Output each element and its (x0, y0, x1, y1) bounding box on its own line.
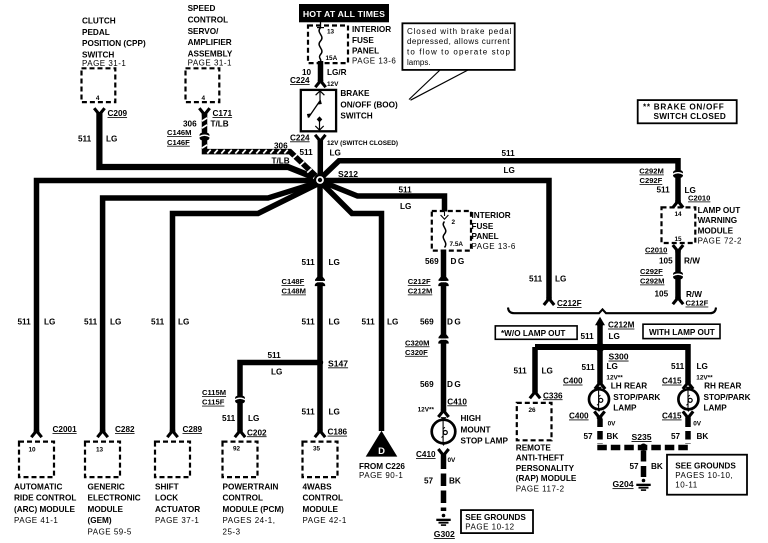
svg-text:4: 4 (202, 95, 206, 102)
svg-text:15: 15 (675, 236, 683, 243)
connector C209 (94, 108, 104, 113)
BOO switch internal symbol (316, 91, 325, 95)
svg-text:LG: LG (106, 134, 117, 143)
svg-text:SHIFT: SHIFT (155, 482, 179, 491)
wire fuse output 569 DG down to high mount stop lamp C410 (441, 250, 447, 411)
svg-text:511: 511 (514, 366, 528, 375)
dashed ground wire 57 BK from S235 to G204 (641, 451, 647, 478)
svg-text:LAMP: LAMP (613, 404, 637, 413)
connector C148F / C148M (314, 281, 325, 282)
wire C212M below brace down to splice S300, circuit 511 LG (597, 324, 603, 348)
wire S300 to RH rear stop/park lamp C415, circuit 511 LG (685, 344, 691, 383)
wire from ARC module C2001 to splice S212, circuit 511 LG (37, 181, 317, 434)
svg-text:511: 511 (151, 318, 165, 327)
svg-text:S235: S235 (632, 432, 652, 442)
svg-text:MODULE: MODULE (698, 226, 734, 235)
svg-text:D: D (378, 446, 385, 457)
splice S300 (595, 343, 604, 352)
shift lock actuator box (dashed) (155, 442, 190, 478)
svg-text:511: 511 (268, 351, 282, 360)
svg-text:STOP/PARK: STOP/PARK (613, 393, 660, 402)
RAP module box (dashed), pin 26 (517, 403, 552, 440)
svg-text:C336: C336 (543, 391, 563, 400)
wire from shift lock actuator C289 to splice S212, circuit 511 LG (173, 184, 318, 433)
svg-text:LG: LG (504, 166, 515, 175)
svg-text:(ARC) MODULE: (ARC) MODULE (14, 505, 75, 514)
svg-text:LAMP OUT: LAMP OUT (698, 206, 741, 215)
svg-text:CONTROL: CONTROL (223, 494, 263, 503)
lamp out warning module box (dashed), pins 14 and 15 (662, 207, 696, 243)
svg-text:SERVO/: SERVO/ (188, 27, 220, 36)
speed control box (dashed) (186, 68, 220, 102)
svg-text:26: 26 (529, 407, 537, 414)
wire C2010 lamp-out module output to C212F above brace, circuit 105 R/W (675, 250, 681, 299)
svg-text:MOUNT: MOUNT (461, 425, 491, 434)
svg-text:12V**: 12V** (606, 374, 623, 381)
svg-text:HIGH: HIGH (461, 414, 482, 423)
dashed ground wire 57 BK from high mount lamp to G302 (441, 457, 447, 512)
svg-text:C415: C415 (662, 377, 682, 386)
wire S300 horizontal bus between C336 branch and RH lamp branch (535, 344, 688, 350)
wire splice S212 to C292M connector, circuit 511 LG (top right run) (322, 161, 679, 203)
svg-text:WARNING: WARNING (698, 216, 738, 225)
svg-text:C212M: C212M (408, 287, 432, 296)
svg-text:FROM C226: FROM C226 (359, 462, 405, 471)
svg-text:PAGE 117-2: PAGE 117-2 (516, 485, 565, 494)
PCM module box (dashed), pin 92 (223, 442, 258, 478)
svg-text:HOT AT ALL TIMES: HOT AT ALL TIMES (303, 9, 385, 19)
svg-text:569: 569 (420, 318, 434, 327)
svg-text:C186: C186 (328, 428, 348, 437)
svg-text:C209: C209 (108, 109, 128, 118)
svg-text:C292M: C292M (639, 167, 663, 176)
wire splice S212 east to left C212F drop, circuit 511 LG (322, 181, 549, 299)
svg-text:511: 511 (300, 148, 314, 157)
svg-text:LG/R: LG/R (327, 68, 347, 77)
svg-text:STOP LAMP: STOP LAMP (461, 437, 509, 446)
svg-text:C415: C415 (662, 412, 682, 421)
svg-text:REMOTE: REMOTE (516, 443, 552, 452)
svg-text:C289: C289 (183, 425, 203, 434)
svg-text:C2010: C2010 (688, 194, 710, 203)
svg-text:POWERTRAIN: POWERTRAIN (223, 482, 279, 491)
svg-text:SWITCH: SWITCH (340, 111, 372, 120)
svg-text:FUSE: FUSE (352, 36, 374, 45)
svg-text:*W/O LAMP OUT: *W/O LAMP OUT (501, 329, 565, 338)
svg-text:DG: DG (447, 318, 462, 327)
svg-text:C148M: C148M (282, 287, 306, 296)
svg-text:LG: LG (542, 366, 553, 375)
svg-text:569: 569 (425, 257, 439, 266)
svg-text:(RAP) MODULE: (RAP) MODULE (516, 474, 577, 483)
wire S300 down to LH rear stop/park lamp C400, circuit 511 LG (597, 347, 603, 383)
connector C292F / C292M lower (673, 272, 683, 279)
GEM module box (dashed), pin 13 (85, 442, 120, 478)
wire S147 west branch to PCM C202 via C115, circuit 511 LG (240, 363, 318, 431)
ground G302 (442, 514, 446, 518)
svg-text:MODULE (PCM): MODULE (PCM) (223, 505, 285, 514)
svg-text:SEE GROUNDS: SEE GROUNDS (465, 513, 526, 522)
svg-text:57: 57 (630, 462, 640, 471)
svg-text:LOCK: LOCK (155, 494, 178, 503)
svg-text:LH REAR: LH REAR (611, 382, 647, 391)
svg-text:S300: S300 (609, 352, 629, 362)
svg-text:C202: C202 (247, 428, 267, 437)
svg-text:C2010: C2010 (645, 245, 667, 254)
svg-text:lamps.: lamps. (407, 58, 431, 67)
svg-text:12V**: 12V** (696, 374, 713, 381)
svg-text:511: 511 (529, 274, 543, 283)
wire splice S212 to triangle D (from C226), circuit 511 LG (322, 183, 382, 431)
ground G204 (642, 479, 646, 483)
svg-text:PAGE 41-1: PAGE 41-1 (14, 516, 58, 525)
svg-text:C292M: C292M (640, 277, 664, 286)
svg-text:511: 511 (502, 149, 516, 158)
svg-text:CONTROL: CONTROL (303, 494, 343, 503)
svg-text:BK: BK (607, 432, 619, 441)
svg-text:C292F: C292F (640, 267, 663, 276)
svg-text:LG: LG (607, 362, 618, 371)
svg-text:to flow to operate stop: to flow to operate stop (407, 48, 511, 57)
svg-text:STOP/PARK: STOP/PARK (704, 393, 751, 402)
connector C292M / C292F (673, 170, 683, 177)
svg-text:LG: LG (44, 318, 55, 327)
connector C115M / C115F (235, 396, 245, 403)
svg-text:INTERIOR: INTERIOR (472, 211, 511, 220)
svg-text:INTERIOR: INTERIOR (352, 25, 391, 34)
svg-text:PAGES 24-1,: PAGES 24-1, (223, 516, 276, 525)
svg-text:C400: C400 (563, 377, 583, 386)
svg-text:C115F: C115F (202, 398, 225, 407)
svg-text:LG: LG (329, 407, 340, 416)
svg-text:13: 13 (327, 29, 335, 36)
wire S300 to RAP module C336, circuit 511 LG (532, 347, 538, 392)
fuse element 13 (15A) (317, 27, 324, 29)
svg-text:CLUTCH: CLUTCH (82, 17, 116, 26)
svg-text:PAGE 72-2: PAGE 72-2 (698, 236, 742, 245)
svg-text:FUSE: FUSE (472, 222, 494, 231)
dashed ground wire 57 BK below LH lamp (597, 419, 603, 445)
svg-text:WITH LAMP OUT: WITH LAMP OUT (649, 328, 715, 337)
wire from brake switch C224 down to splice S212, circuit 511 LG (318, 140, 324, 177)
svg-text:ASSEMBLY: ASSEMBLY (188, 49, 233, 58)
svg-text:C320M: C320M (405, 338, 429, 347)
svg-text:PAGE 13-6: PAGE 13-6 (352, 57, 396, 66)
connector C171 (199, 108, 209, 113)
svg-text:7.5A: 7.5A (450, 241, 464, 248)
svg-text:PANEL: PANEL (352, 47, 379, 56)
wire from GEM module C282 to splice S212, circuit 511 LG (103, 183, 318, 434)
svg-text:MODULE: MODULE (303, 505, 339, 514)
svg-text:105: 105 (655, 289, 669, 298)
svg-text:4: 4 (96, 95, 100, 102)
svg-text:LAMP: LAMP (704, 404, 728, 413)
svg-text:PANEL: PANEL (472, 232, 499, 241)
svg-text:12V**: 12V** (418, 407, 435, 414)
interior fuse panel box (dashed) with 15A fuse 13 (308, 26, 348, 64)
ARC module box (dashed), pin 10 (19, 442, 54, 478)
svg-text:G204: G204 (613, 479, 634, 489)
svg-text:ON/OFF (BOO): ON/OFF (BOO) (340, 100, 398, 109)
svg-text:C146M: C146M (167, 128, 191, 137)
svg-text:DG: DG (447, 380, 462, 389)
svg-text:PAGE 31-1: PAGE 31-1 (82, 59, 126, 68)
splice S212 (314, 174, 326, 186)
svg-text:AUTOMATIC: AUTOMATIC (14, 482, 62, 491)
svg-text:SEE GROUNDS: SEE GROUNDS (675, 461, 736, 470)
svg-text:57: 57 (584, 432, 594, 441)
LH rear stop/park lamp (596, 387, 602, 391)
svg-text:14: 14 (675, 211, 683, 218)
svg-text:105: 105 (659, 257, 673, 266)
svg-text:25-3: 25-3 (223, 528, 241, 537)
svg-text:LG: LG (697, 362, 708, 371)
svg-text:511: 511 (671, 362, 685, 371)
svg-text:PAGE 59-5: PAGE 59-5 (88, 528, 132, 537)
svg-text:C400: C400 (569, 412, 589, 421)
brace joining C212F wires into C212M (508, 308, 716, 314)
svg-text:PAGE 10-12: PAGE 10-12 (465, 523, 514, 532)
svg-text:57: 57 (424, 476, 434, 485)
svg-text:LG: LG (248, 414, 259, 423)
svg-text:BRAKE: BRAKE (340, 89, 370, 98)
svg-text:57: 57 (671, 432, 681, 441)
svg-text:511: 511 (18, 318, 32, 327)
callout note: closed with brake pedal depressed (402, 23, 514, 70)
connector C212M below brace (595, 317, 605, 325)
dashed ground wire 57 BK below RH lamp (685, 419, 691, 445)
note box: ** brake on/off switch closed (638, 100, 737, 123)
svg-text:LG: LG (609, 332, 620, 341)
svg-text:LG: LG (329, 318, 340, 327)
svg-text:511: 511 (582, 363, 596, 372)
svg-text:RH REAR: RH REAR (704, 382, 741, 391)
svg-text:35: 35 (313, 446, 321, 453)
svg-text:PEDAL: PEDAL (82, 28, 110, 37)
svg-text:LG: LG (178, 318, 189, 327)
svg-text:C115M: C115M (202, 388, 226, 397)
svg-text:511: 511 (399, 185, 413, 194)
svg-text:511: 511 (302, 318, 316, 327)
svg-text:BK: BK (449, 476, 461, 485)
hatched wire 306 T/LB from speed control C171 through C146 to splice S212 (205, 113, 319, 179)
svg-text:LG: LG (400, 202, 411, 211)
svg-text:MODULE: MODULE (88, 505, 124, 514)
svg-text:C320F: C320F (405, 348, 428, 357)
svg-text:ANTI-THEFT: ANTI-THEFT (516, 454, 564, 463)
svg-text:C224: C224 (290, 133, 310, 142)
center wire splice S212 down through C148 and S147 to 4WABS C186, circuit 511 LG (317, 180, 323, 431)
svg-text:C410: C410 (447, 397, 467, 406)
4WABS module box (dashed), pin 35 (303, 442, 338, 478)
high mount stop lamp (440, 417, 446, 421)
svg-text:C171: C171 (213, 109, 233, 118)
svg-text:511: 511 (84, 318, 98, 327)
svg-text:T/LB: T/LB (211, 120, 229, 129)
brake on/off (BOO) switch box (301, 90, 336, 131)
wire splice S212 to interior fuse panel (7.5A fuse), circuit 511 LG (322, 182, 445, 212)
option tag box WITH LAMP OUT (643, 324, 720, 338)
svg-text:LG: LG (329, 258, 340, 267)
HOT AT ALL TIMES power feed box (299, 4, 389, 22)
svg-text:PAGE 90-1: PAGE 90-1 (359, 471, 403, 480)
svg-text:C148F: C148F (282, 277, 305, 286)
svg-text:CONTROL: CONTROL (188, 16, 228, 25)
svg-text:S147: S147 (328, 358, 348, 368)
svg-text:Closed with brake pedal: Closed with brake pedal (407, 27, 512, 36)
svg-text:511: 511 (302, 258, 316, 267)
svg-text:306: 306 (274, 141, 288, 150)
svg-text:PAGE 31-1: PAGE 31-1 (188, 59, 232, 68)
triangle D off-page connector from C226 (366, 431, 398, 457)
dashed ground bus 57 BK between lamps through splice S235 (597, 445, 690, 451)
svg-text:4WABS: 4WABS (303, 482, 333, 491)
svg-text:ELECTRONIC: ELECTRONIC (88, 494, 141, 503)
svg-text:511: 511 (222, 414, 236, 423)
svg-text:C146F: C146F (167, 138, 190, 147)
svg-text:0V: 0V (608, 420, 617, 427)
svg-text:12V: 12V (327, 81, 339, 88)
interior fuse panel box 2 (dashed) with 7.5A fuse 2 (432, 211, 471, 251)
svg-text:10-11: 10-11 (675, 480, 697, 489)
svg-text:S212: S212 (338, 169, 358, 179)
svg-text:C212M: C212M (608, 321, 635, 330)
svg-text:PAGE 37-1: PAGE 37-1 (155, 516, 199, 525)
svg-text:C212F: C212F (686, 299, 709, 308)
CPP switch box (dashed) (82, 68, 116, 102)
svg-text:SPEED: SPEED (188, 4, 216, 13)
RH rear stop/park lamp (685, 387, 691, 391)
connector C212F / C212M in high mount feed (438, 281, 449, 282)
svg-text:BK: BK (697, 432, 709, 441)
svg-text:10: 10 (29, 447, 37, 454)
svg-text:depressed, allows current: depressed, allows current (407, 37, 510, 46)
svg-text:0V: 0V (448, 457, 457, 464)
svg-text:C2001: C2001 (53, 425, 78, 434)
svg-text:LG: LG (110, 318, 121, 327)
svg-text:DG: DG (451, 257, 466, 266)
svg-text:12V (SWITCH CLOSED): 12V (SWITCH CLOSED) (327, 140, 398, 147)
svg-text:LG: LG (387, 318, 398, 327)
svg-text:15A: 15A (326, 55, 338, 62)
svg-text:PAGE 13-6: PAGE 13-6 (472, 242, 516, 251)
svg-text:511: 511 (657, 186, 671, 195)
svg-text:R/W: R/W (684, 257, 700, 266)
svg-text:92: 92 (233, 446, 241, 453)
svg-text:C212F: C212F (557, 299, 582, 308)
svg-text:511: 511 (581, 332, 595, 341)
connector C2010 into lamp out warning module (673, 202, 683, 207)
svg-text:RIDE CONTROL: RIDE CONTROL (14, 494, 76, 503)
see grounds note box (G204) (667, 455, 747, 495)
see grounds note box (G302) (461, 510, 533, 533)
svg-text:G302: G302 (434, 529, 455, 539)
svg-text:LG: LG (330, 149, 341, 158)
svg-text:511: 511 (302, 407, 316, 416)
svg-text:PAGES 10-10,: PAGES 10-10, (675, 471, 733, 480)
svg-text:T/LB: T/LB (272, 157, 290, 166)
svg-text:BK: BK (651, 462, 663, 471)
svg-text:SWITCH CLOSED: SWITCH CLOSED (654, 112, 727, 121)
svg-text:2: 2 (452, 219, 456, 226)
svg-text:LG: LG (555, 274, 566, 283)
splice S235 on ground bus (640, 444, 647, 451)
svg-text:GENERIC: GENERIC (88, 482, 125, 491)
svg-text:C410: C410 (416, 450, 436, 459)
svg-text:C292F: C292F (640, 176, 663, 185)
wire from CPP switch C209 to splice S212, circuit 511 LG (99, 112, 318, 179)
svg-text:ACTUATOR: ACTUATOR (155, 505, 200, 514)
option tag box *W/O LAMP OUT (495, 326, 577, 339)
svg-text:511: 511 (78, 134, 92, 143)
svg-text:511: 511 (362, 318, 376, 327)
svg-text:569: 569 (420, 380, 434, 389)
svg-text:PAGE 42-1: PAGE 42-1 (303, 516, 347, 525)
svg-text:C282: C282 (115, 425, 135, 434)
connector C146M / C146F (200, 133, 210, 140)
svg-text:AMPLIFIER: AMPLIFIER (188, 38, 232, 47)
svg-text:** BRAKE ON/OFF: ** BRAKE ON/OFF (643, 103, 724, 112)
svg-text:(GEM): (GEM) (88, 516, 112, 525)
svg-text:0V: 0V (693, 420, 702, 427)
svg-text:13: 13 (96, 447, 104, 454)
svg-text:C224: C224 (290, 76, 310, 85)
wire from hot feed into fuse panel (320, 22, 322, 28)
svg-text:PERSONALITY: PERSONALITY (516, 464, 575, 473)
svg-text:POSITION (CPP): POSITION (CPP) (82, 39, 146, 48)
wire fuse output 10 LG/R (318, 61, 324, 81)
connector C320M / C320F (438, 338, 449, 339)
splice S147 (317, 359, 323, 365)
svg-text:C212F: C212F (408, 277, 431, 286)
svg-text:LG: LG (271, 367, 282, 376)
